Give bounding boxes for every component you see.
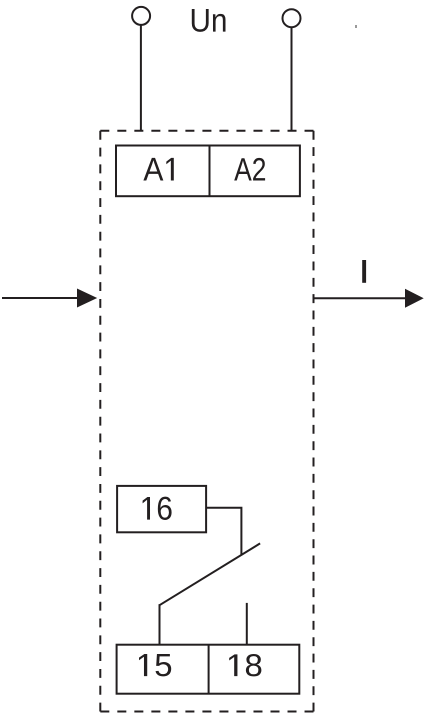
label A1 [143, 158, 173, 181]
module outline dashed left edge [99, 131, 101, 712]
terminal circle left [132, 7, 150, 25]
module outline dashed top edge [100, 130, 313, 132]
wire from 16 to fixed contact [206, 508, 241, 555]
wire from left terminal to module [140, 25, 142, 130]
tiny speck artifact [355, 25, 357, 28]
wire blade pivot to terminal 15 [159, 604, 161, 644]
module outline dashed right edge [313, 131, 315, 712]
wire from right terminal to module [291, 27, 293, 130]
label I [362, 260, 366, 283]
output arrow wire [314, 297, 408, 299]
label A2 [234, 158, 265, 181]
divider A1|A2 [209, 146, 211, 197]
label 15 [139, 654, 171, 676]
terminal circle right [283, 9, 301, 27]
terminal block A1/A2 [116, 146, 300, 197]
relay switch blade [160, 543, 261, 605]
divider 15|18 [208, 645, 210, 694]
label 18 [229, 654, 261, 676]
wire terminal 18 stub [246, 603, 248, 645]
output arrowhead [405, 289, 424, 308]
module outline dashed bottom edge [100, 711, 313, 713]
terminal block 15/18 [117, 645, 300, 694]
label Un [192, 9, 226, 32]
input arrowhead [77, 289, 97, 308]
label 16 [143, 497, 172, 520]
input arrow wire [2, 297, 79, 299]
contact block 16 [117, 486, 206, 532]
